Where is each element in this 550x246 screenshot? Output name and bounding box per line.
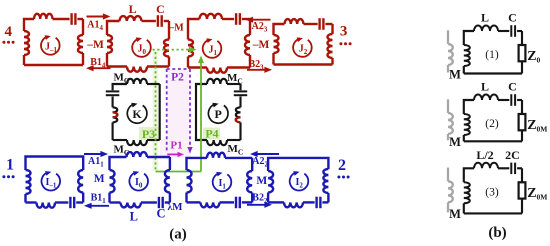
loop current J-1 bbox=[41, 36, 60, 54]
inductor L bottom of I0 bbox=[110, 201, 121, 203]
black loop K outline bbox=[113, 84, 127, 90]
circuit (3) inductor L/2 top bbox=[474, 163, 498, 168]
svg-text:L: L bbox=[481, 11, 489, 25]
tint behind P3 label bbox=[139, 127, 159, 140]
capacitor C top of J0 bbox=[157, 15, 159, 27]
circuit (2) inductor M left edge bbox=[464, 100, 474, 114]
circuit (3) inductor M left edge bbox=[464, 168, 474, 182]
blue resonator cell I1 outline bbox=[187, 158, 208, 170]
inductor bottom of I1 bbox=[187, 201, 201, 203]
capacitor top of J-1 bbox=[70, 13, 72, 25]
loop current J0 bbox=[132, 38, 151, 56]
loop current I2 bbox=[290, 172, 309, 190]
right edge of K bbox=[159, 84, 161, 140]
inductor bottom of I2 bbox=[268, 201, 284, 203]
capacitor C bottom of I0 bbox=[158, 197, 160, 208]
inductor L top of J0 bbox=[120, 16, 142, 21]
red resonator cell J1 outline bbox=[188, 19, 200, 40]
green solid path P4 bottom bbox=[156, 171, 202, 173]
green arrow into J1 bbox=[187, 49, 191, 51]
dots left of I-1 bbox=[2, 175, 5, 178]
inductor left edge of J1 (coupling) bbox=[188, 40, 193, 57]
svg-text:M: M bbox=[449, 207, 461, 221]
arrow A1_4 bbox=[87, 16, 106, 18]
tint behind P1 area bbox=[160, 139, 191, 158]
svg-text:–M: –M bbox=[86, 39, 104, 51]
magenta arrow P1 bbox=[167, 153, 180, 155]
coupling inductor Mc bottom of P bbox=[207, 140, 227, 145]
svg-text:–M: –M bbox=[252, 39, 270, 51]
svg-text:(a): (a) bbox=[169, 227, 187, 243]
blue resonator cell I0 outline bbox=[110, 157, 127, 170]
svg-text:L/2: L/2 bbox=[476, 148, 493, 162]
capacitor bottom of I1 bbox=[235, 197, 237, 209]
blue resonator cell I2 outline bbox=[268, 158, 328, 171]
capacitor bottom of I-1 bbox=[69, 197, 71, 208]
tint band behind green dotted line bbox=[153, 50, 159, 171]
svg-text:1: 1 bbox=[6, 156, 14, 173]
inductor bottom of I-1 bbox=[26, 201, 37, 203]
coupling inductor Mc top of P bbox=[207, 79, 227, 84]
inductor right edge of J0 (coupling) bbox=[164, 40, 169, 57]
svg-text:L: L bbox=[129, 2, 137, 16]
svg-text:M: M bbox=[256, 175, 267, 187]
svg-text:2C: 2C bbox=[505, 148, 520, 162]
red resonator cell J-1 outline bbox=[24, 19, 34, 31]
svg-text:2: 2 bbox=[338, 157, 346, 174]
dots left of J-1 bbox=[2, 41, 5, 44]
svg-text:λM: λM bbox=[168, 201, 184, 213]
wire bottom of J0 with coupling inductor bbox=[107, 65, 127, 67]
svg-text:M: M bbox=[449, 67, 461, 81]
svg-text:M: M bbox=[94, 173, 105, 185]
green solid path P4 vertical with up arrow bbox=[200, 62, 202, 172]
arrow A2_3 bbox=[250, 19, 270, 21]
inductor top of J-1 bbox=[34, 14, 53, 19]
inductor right edge of J2 bbox=[328, 34, 333, 58]
capacitor bottom of I2 bbox=[315, 197, 317, 209]
svg-text:P: P bbox=[215, 107, 222, 121]
svg-text:(b): (b) bbox=[488, 225, 506, 241]
circuit (1) inductor M left edge bbox=[464, 31, 474, 45]
inductor right edge of I-1 (coupling) bbox=[78, 170, 83, 193]
loop current K bbox=[127, 104, 147, 123]
svg-text:C: C bbox=[156, 2, 165, 16]
inductor right edge of P bbox=[236, 107, 241, 122]
wire bottom of J1 with coupling inductor bbox=[188, 66, 207, 68]
capacitor top of J2 bbox=[318, 18, 320, 30]
loop current J1 bbox=[203, 39, 222, 57]
blue resonator cell I-1 outline bbox=[26, 157, 84, 171]
inductor left edge of K bbox=[113, 107, 118, 122]
svg-text:4: 4 bbox=[4, 24, 12, 40]
inductor right edge of I2 bbox=[323, 169, 328, 193]
circuit (3) bottom wire bbox=[464, 212, 522, 214]
circuit (3) load resistor bbox=[521, 168, 523, 182]
arrow A1_1 bbox=[84, 153, 103, 155]
inductor left edge of J-1 bbox=[24, 31, 29, 55]
svg-text:(2): (2) bbox=[485, 118, 499, 130]
coupling inductor top of I0 bbox=[127, 152, 147, 157]
coupling inductor Mc bottom of K bbox=[113, 139, 127, 141]
violet arrowhead down on P2 bbox=[187, 147, 192, 154]
circuit (2) bottom wire bbox=[464, 140, 522, 142]
circuit (2) capacitor C bbox=[510, 94, 512, 106]
dots right of I2 bbox=[337, 176, 340, 179]
svg-text:–M: –M bbox=[168, 23, 184, 34]
circuit (1) inductor L top bbox=[474, 26, 498, 31]
svg-text:M: M bbox=[449, 135, 461, 149]
wire bottom of J2 bbox=[274, 63, 333, 65]
red resonator cell J2 outline bbox=[274, 24, 285, 35]
capacitor top of J1 bbox=[235, 13, 237, 25]
black loop P outline bbox=[196, 84, 207, 140]
circuit (1) gray source inductor bbox=[447, 30, 449, 44]
tint behind P4 label bbox=[203, 128, 220, 140]
loop current I0 bbox=[129, 172, 148, 190]
svg-text:(1): (1) bbox=[485, 49, 499, 61]
svg-text:L: L bbox=[481, 80, 489, 94]
green dotted path P3 vertical bbox=[155, 52, 157, 172]
circuit (1) capacitor C bbox=[510, 25, 512, 37]
svg-text:P3: P3 bbox=[142, 127, 155, 141]
wire bottom of J-1 bbox=[24, 64, 83, 66]
svg-text:3: 3 bbox=[340, 24, 348, 40]
red mark on P right inductor bbox=[236, 117, 241, 122]
circuit (3) gray source inductor bbox=[447, 168, 449, 182]
loop current J2 bbox=[293, 38, 312, 56]
red mark on K left inductor bbox=[113, 112, 118, 117]
loop current P bbox=[208, 104, 228, 123]
circuit (2) gray source inductor bbox=[447, 99, 449, 113]
arrow A2_2 bbox=[255, 153, 279, 155]
violet dashed box P2 bbox=[167, 68, 190, 70]
red resonator cell J0 left edge bbox=[107, 21, 120, 35]
coupling inductor Mc top of K bbox=[127, 79, 147, 84]
inductor top of J2 bbox=[285, 19, 304, 24]
svg-text:L: L bbox=[130, 210, 138, 224]
svg-text:C: C bbox=[156, 207, 165, 221]
svg-text:P2: P2 bbox=[171, 71, 184, 83]
coupling inductor top of I1 bbox=[207, 153, 225, 158]
svg-text:P1: P1 bbox=[170, 139, 182, 151]
loop current I1 bbox=[213, 173, 232, 191]
circuit (2) load resistor bbox=[521, 100, 523, 114]
inductor right edge of I0 (coupling) bbox=[165, 170, 170, 193]
inductor right edge of J1 (coupling) bbox=[245, 35, 250, 55]
circuit (3) capacitor 2C bbox=[510, 163, 512, 175]
capacitor right edge of P bbox=[239, 84, 241, 90]
inductor right edge of J-1 (coupling) bbox=[78, 35, 83, 53]
tint band behind P2 box bbox=[168, 70, 190, 154]
svg-text:C: C bbox=[508, 80, 517, 94]
dots right of J2 bbox=[339, 42, 342, 45]
svg-text:K: K bbox=[132, 107, 142, 121]
inductor top of J1 bbox=[200, 14, 223, 19]
capacitor left edge of K bbox=[106, 90, 120, 92]
loop current I-1 bbox=[42, 172, 61, 190]
circuit (2) inductor L top bbox=[474, 95, 498, 101]
inductor left edge of I-1 bbox=[26, 170, 31, 194]
svg-text:C: C bbox=[508, 11, 517, 25]
inductor right edge of I1 (coupling) bbox=[247, 171, 252, 193]
circuit (1) load resistor bbox=[521, 31, 523, 45]
inductor left edge of I2 (coupling) bbox=[268, 171, 273, 193]
svg-text:P4: P4 bbox=[205, 127, 218, 141]
circuit (1) bottom wire bbox=[464, 72, 522, 74]
svg-text:(3): (3) bbox=[485, 186, 499, 198]
green dotted path P3 horizontal bbox=[153, 49, 188, 51]
